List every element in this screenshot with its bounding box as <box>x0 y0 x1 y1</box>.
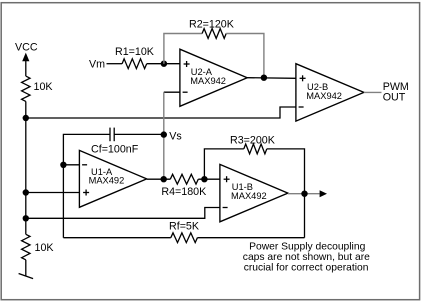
wire resistor to ground <box>25 260 27 276</box>
ground symbol <box>19 274 33 279</box>
node U1-B output junction <box>301 191 307 197</box>
capacitor Cf <box>110 128 114 142</box>
wire R2 to U2-A output <box>226 34 264 78</box>
wire R4 to U1-B plus <box>198 178 220 180</box>
svg-text:10K: 10K <box>34 81 54 93</box>
svg-text:crucial for correct operation: crucial for correct operation <box>244 262 369 273</box>
wire U1-A output to R4 <box>147 178 171 180</box>
VCC power symbol arrow <box>22 53 29 62</box>
wire reference to U1-B minus <box>26 208 220 219</box>
svg-text:MAX942: MAX942 <box>190 76 226 86</box>
wire resistor to node <box>25 101 27 118</box>
resistor Rf <box>171 233 198 243</box>
node R1/R2/U2-A junction <box>161 61 167 67</box>
wire Vs vertical (U2-A minus to U1-A output) <box>163 92 165 179</box>
op-amp U2-A <box>180 49 247 106</box>
op-amp U1-A <box>79 150 146 207</box>
svg-text:Power Supply decoupling: Power Supply decoupling <box>249 241 365 252</box>
svg-text:10K: 10K <box>35 242 55 254</box>
node Vs <box>161 131 167 137</box>
svg-text:Vm: Vm <box>89 58 105 70</box>
wire U1-B output down to Rf <box>304 194 306 238</box>
wire R3 feedback loop <box>204 149 243 179</box>
wire Vm to R1 <box>107 63 123 65</box>
op-amp U1-B <box>220 164 288 221</box>
op-amp U2-B <box>296 64 364 121</box>
svg-text:Rf=5K: Rf=5K <box>169 221 200 233</box>
node reference to U1-A plus junction <box>23 189 29 195</box>
node Cf/Rf/U1-A minus junction <box>60 162 66 168</box>
svg-text:MAX942: MAX942 <box>306 91 342 101</box>
wire U2-B output <box>364 91 382 93</box>
wire reference to U1-A plus <box>26 192 80 194</box>
wire U1-A minus stub <box>63 164 79 166</box>
resistor R2 <box>202 29 226 39</box>
wire Rf right segment <box>197 237 304 239</box>
wire U2-A minus stub <box>164 91 180 93</box>
node reference to U1-B minus junction <box>23 215 29 221</box>
svg-text:Vs: Vs <box>169 130 181 142</box>
note text power supply decoupling <box>243 241 370 273</box>
svg-text:MAX492: MAX492 <box>231 191 267 201</box>
svg-text:OUT: OUT <box>383 92 406 104</box>
svg-text:R4=180K: R4=180K <box>161 186 207 198</box>
wire R2 feedback loop <box>164 34 202 64</box>
resistor R3 <box>244 144 267 154</box>
wire left reference rail vertical <box>25 118 27 234</box>
resistor R1 <box>122 59 147 69</box>
node divider/reference junction <box>23 115 29 121</box>
wire R3 to U1-B output <box>267 149 305 194</box>
node U1-A output / Vs junction <box>161 176 167 182</box>
wire U2-A output to U2-B plus <box>247 77 296 80</box>
wire R1 to U2-A plus input <box>147 63 180 65</box>
svg-text:caps are not shown, but are: caps are not shown, but are <box>243 252 370 263</box>
output arrowhead <box>320 190 327 197</box>
svg-text:Cf=100nF: Cf=100nF <box>91 144 139 156</box>
svg-text:R1=10K: R1=10K <box>115 46 155 58</box>
node R4/R3/U1-B plus junction <box>201 176 207 182</box>
PWM OUT label <box>383 81 409 103</box>
svg-text:R3=200K: R3=200K <box>230 135 276 147</box>
svg-text:R2=120K: R2=120K <box>189 18 235 30</box>
svg-text:VCC: VCC <box>15 41 38 53</box>
wire U1-B output to arrow <box>288 193 320 195</box>
wire Cf to U1-A minus rail <box>63 134 110 237</box>
resistor 10K upper (VCC divider) <box>22 76 30 101</box>
svg-text:MAX492: MAX492 <box>89 175 125 185</box>
resistor 10K lower (VCC divider) <box>22 234 30 259</box>
wire Cf loop left <box>114 133 164 135</box>
wire VCC arrow stem <box>25 58 27 77</box>
wire Rf left segment <box>63 237 170 239</box>
wire reference line to U2-B minus <box>26 107 296 118</box>
node U2-A output junction <box>261 75 267 81</box>
resistor R4 <box>170 174 198 184</box>
